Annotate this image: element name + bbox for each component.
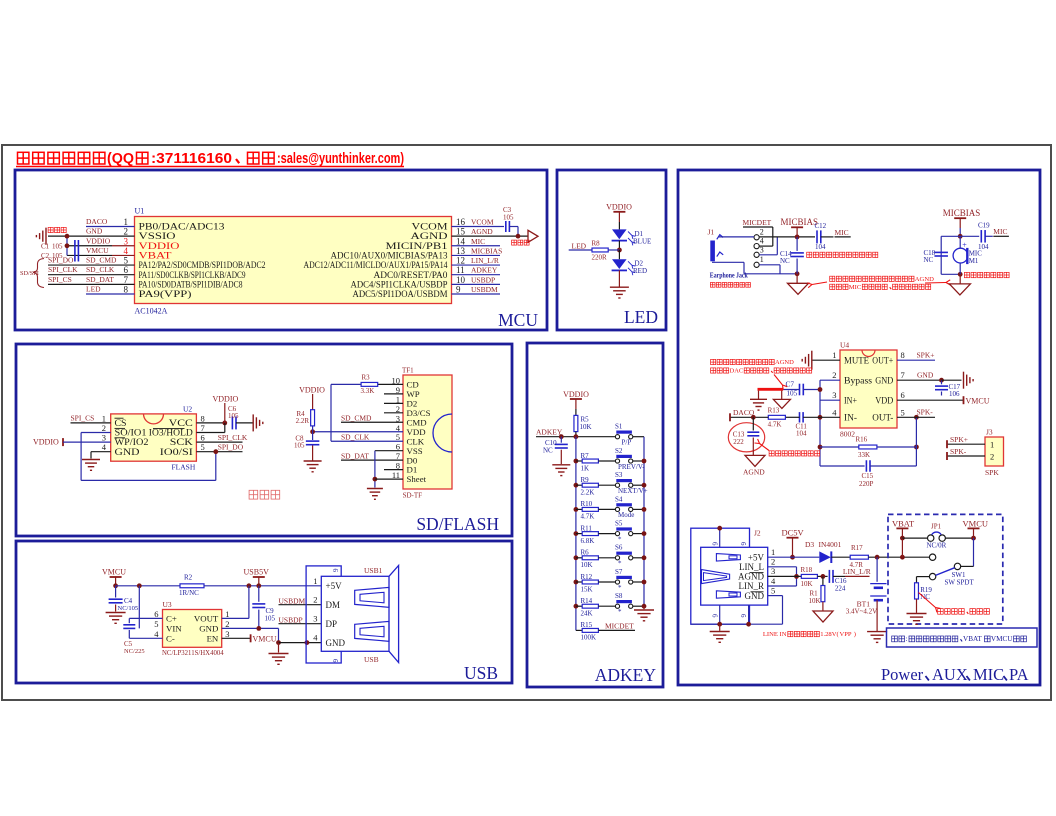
svg-text:1K: 1K: [581, 464, 590, 472]
svg-text:3: 3: [102, 433, 106, 443]
svg-text:2: 2: [225, 619, 229, 629]
svg-text:FLASH: FLASH: [172, 463, 196, 472]
svg-text:SD-TF: SD-TF: [403, 491, 423, 499]
svg-text:RED: RED: [633, 267, 647, 275]
svg-text:Bypass: Bypass: [844, 377, 872, 387]
svg-text:R12: R12: [581, 573, 593, 581]
svg-text:*: *: [618, 535, 622, 543]
svg-text:SD_DAT: SD_DAT: [341, 452, 369, 461]
svg-text:USB: USB: [464, 663, 498, 683]
svg-text:VDDIO: VDDIO: [86, 236, 111, 245]
svg-text:ADC5/SPI1DOA/USBDM: ADC5/SPI1DOA/USBDM: [353, 289, 448, 300]
svg-text:USB5V: USB5V: [244, 568, 270, 577]
svg-text:WP/IO2: WP/IO2: [115, 437, 149, 447]
svg-text:C12: C12: [815, 222, 827, 230]
svg-text:SPI_DO: SPI_DO: [48, 256, 74, 265]
svg-text:15K: 15K: [581, 585, 593, 593]
svg-text:C19: C19: [978, 221, 990, 229]
svg-text:U3: U3: [163, 600, 172, 609]
svg-text:1: 1: [832, 350, 836, 360]
svg-text:C+: C+: [166, 614, 177, 624]
svg-text:USBDP: USBDP: [471, 275, 495, 284]
svg-text:2: 2: [771, 557, 775, 567]
svg-text:VMCU: VMCU: [253, 634, 277, 643]
svg-text:1: 1: [990, 440, 994, 450]
svg-text:MICBIAS: MICBIAS: [471, 246, 502, 255]
svg-text:(QQ: (QQ: [107, 151, 134, 167]
svg-text:NC: NC: [543, 447, 553, 455]
svg-text:C10: C10: [545, 439, 557, 447]
svg-text:GND: GND: [326, 638, 346, 648]
svg-text:LED: LED: [572, 242, 587, 251]
svg-text:1: 1: [102, 413, 106, 423]
svg-text:DACO: DACO: [733, 408, 755, 417]
svg-text:6: 6: [901, 390, 905, 400]
svg-text:TF1: TF1: [402, 366, 414, 374]
svg-text:ADKEY: ADKEY: [536, 428, 563, 437]
svg-text:R13: R13: [768, 406, 780, 414]
svg-text:10K: 10K: [581, 561, 593, 569]
svg-text:SD_CMD: SD_CMD: [86, 256, 117, 265]
svg-text:2: 2: [102, 423, 106, 433]
svg-text:DM: DM: [326, 600, 341, 610]
svg-text:ADKEY: ADKEY: [471, 266, 498, 275]
svg-text:*: *: [618, 584, 622, 592]
svg-text:2.2K: 2.2K: [581, 489, 595, 497]
svg-text:10: 10: [456, 275, 466, 285]
svg-text:16: 16: [456, 217, 466, 227]
svg-text:NC/225: NC/225: [124, 648, 145, 655]
svg-text:U4: U4: [840, 340, 849, 349]
svg-text:SPI_CLK: SPI_CLK: [48, 265, 78, 274]
svg-text:VDDIO: VDDIO: [213, 395, 239, 404]
svg-text:VCC: VCC: [169, 418, 193, 428]
svg-text:6: 6: [710, 542, 718, 546]
svg-text:VMCU: VMCU: [991, 635, 1013, 643]
svg-text:Mode: Mode: [618, 511, 634, 519]
svg-text:SPI_CLK: SPI_CLK: [218, 433, 248, 442]
svg-text:USB: USB: [364, 655, 379, 664]
svg-text:105: 105: [52, 242, 63, 250]
svg-text:SW SPDT: SW SPDT: [945, 578, 975, 586]
svg-text:222: 222: [733, 438, 744, 446]
svg-text:12: 12: [456, 256, 465, 266]
svg-text:R11: R11: [581, 524, 593, 532]
svg-text:4: 4: [124, 246, 129, 256]
svg-text:DAC: DAC: [730, 368, 744, 375]
svg-text:VBAT: VBAT: [892, 518, 915, 528]
svg-text:LIN_L: LIN_L: [739, 562, 764, 572]
svg-text:MICDET: MICDET: [743, 218, 772, 227]
svg-text:6.8K: 6.8K: [581, 537, 595, 545]
svg-text:6: 6: [154, 609, 158, 619]
svg-text:6: 6: [739, 542, 747, 546]
svg-text:VCOM: VCOM: [471, 218, 494, 227]
svg-text:5: 5: [901, 407, 905, 417]
svg-text:4: 4: [760, 236, 764, 245]
svg-text:C-: C-: [166, 633, 175, 643]
svg-text:D3: D3: [805, 540, 814, 549]
svg-text:PA: PA: [1009, 665, 1029, 684]
svg-text:S7: S7: [615, 568, 623, 576]
svg-text:8: 8: [201, 413, 205, 423]
svg-text:LED: LED: [86, 284, 101, 293]
svg-text:105: 105: [294, 442, 305, 450]
svg-text:VDDIO: VDDIO: [33, 437, 59, 446]
svg-text:U1: U1: [135, 207, 145, 216]
svg-text:VMCU: VMCU: [86, 246, 109, 255]
svg-text:SO/IO1: SO/IO1: [115, 428, 147, 438]
svg-text:1: 1: [124, 217, 129, 227]
svg-text:SPI_CS: SPI_CS: [71, 413, 95, 422]
svg-text:R16: R16: [856, 435, 868, 443]
svg-text:IN-: IN-: [844, 414, 857, 424]
svg-text:6: 6: [739, 614, 747, 618]
svg-text:+5V: +5V: [748, 552, 765, 562]
svg-text:(: (: [836, 631, 838, 638]
svg-text:R9: R9: [581, 476, 590, 484]
svg-text:2.2R: 2.2R: [296, 417, 310, 425]
svg-text:M1: M1: [969, 257, 979, 265]
svg-text:SD/SPI: SD/SPI: [20, 270, 39, 277]
svg-text:106: 106: [949, 390, 960, 398]
svg-text:P/P: P/P: [622, 439, 632, 447]
svg-text:4.7K: 4.7K: [581, 513, 595, 521]
svg-text:*: *: [618, 608, 622, 616]
svg-text::: :: [905, 635, 907, 643]
svg-text:105: 105: [228, 412, 239, 420]
svg-text:MCU: MCU: [498, 310, 538, 330]
svg-text:9: 9: [456, 284, 461, 294]
svg-text:1.28V: 1.28V: [820, 631, 837, 638]
svg-text:MIC: MIC: [993, 227, 1007, 236]
svg-text:LINE IN: LINE IN: [763, 631, 787, 638]
svg-text:VDDIO: VDDIO: [606, 203, 632, 212]
svg-text:SD/FLASH: SD/FLASH: [416, 514, 499, 534]
svg-text:VOUT: VOUT: [194, 614, 219, 624]
svg-text:LIN_L/R: LIN_L/R: [843, 567, 871, 576]
svg-text:C15: C15: [862, 472, 874, 480]
svg-text:2: 2: [124, 227, 129, 237]
svg-text:VMCU: VMCU: [963, 518, 989, 528]
svg-text:224: 224: [835, 584, 846, 592]
svg-text:JP1: JP1: [931, 523, 942, 531]
svg-text:5: 5: [124, 256, 129, 266]
svg-text:C4: C4: [124, 597, 133, 605]
svg-text:*: *: [618, 560, 622, 568]
svg-text:R15: R15: [581, 621, 593, 629]
svg-text:SPK+: SPK+: [950, 435, 968, 444]
svg-text:AGND: AGND: [471, 227, 493, 236]
svg-text:6: 6: [201, 433, 205, 443]
svg-text:AC1042A: AC1042A: [135, 307, 168, 316]
svg-text:SD_DAT: SD_DAT: [86, 275, 114, 284]
svg-text:IN4001: IN4001: [819, 540, 842, 549]
svg-text:S2: S2: [615, 447, 623, 455]
svg-text:24K: 24K: [581, 610, 593, 618]
svg-text:GND: GND: [115, 447, 140, 457]
svg-text:3: 3: [771, 566, 775, 576]
svg-text:+: +: [962, 241, 967, 250]
svg-text:GND: GND: [199, 624, 218, 634]
svg-text:NC/LP3211S/HX4004: NC/LP3211S/HX4004: [162, 650, 224, 657]
svg-text:CS: CS: [115, 418, 127, 428]
svg-text:6: 6: [331, 659, 339, 663]
svg-text:5: 5: [771, 585, 775, 595]
svg-text:1: 1: [225, 609, 229, 619]
svg-text:Earphone Jack: Earphone Jack: [710, 271, 748, 279]
svg-text:ADKEY: ADKEY: [595, 665, 657, 685]
svg-text:LED: LED: [624, 307, 658, 327]
svg-text:SCK: SCK: [170, 437, 193, 447]
svg-text:MICBIAS: MICBIAS: [943, 208, 981, 218]
svg-text:VDDIO: VDDIO: [563, 390, 589, 399]
svg-text:104: 104: [815, 243, 826, 251]
svg-text:7: 7: [901, 370, 905, 380]
svg-text:NC/0R: NC/0R: [927, 542, 947, 550]
svg-text:VMCU: VMCU: [102, 568, 126, 577]
svg-text:MICBIAS: MICBIAS: [781, 217, 819, 227]
svg-text:GND: GND: [745, 591, 765, 601]
svg-text:SPK+: SPK+: [917, 351, 935, 360]
svg-text:MIC: MIC: [973, 665, 1004, 684]
svg-text:104: 104: [796, 429, 807, 437]
svg-text:USB1: USB1: [364, 566, 383, 575]
svg-text:VDD: VDD: [875, 397, 893, 407]
svg-text:2: 2: [313, 595, 317, 605]
svg-text:SD_CLK: SD_CLK: [341, 433, 370, 442]
svg-text:33K: 33K: [858, 451, 870, 459]
svg-text:OUT-: OUT-: [872, 414, 893, 424]
svg-text:3: 3: [313, 614, 317, 624]
svg-text:1: 1: [313, 576, 317, 586]
svg-text:5: 5: [201, 442, 205, 452]
svg-text:R6: R6: [581, 549, 590, 557]
svg-text:3: 3: [124, 236, 129, 246]
svg-text:Power: Power: [881, 665, 924, 684]
svg-text:IO0/SI: IO0/SI: [160, 447, 193, 457]
svg-text:10K: 10K: [801, 580, 813, 588]
svg-text:DACO: DACO: [86, 217, 108, 226]
svg-text:R3: R3: [362, 374, 371, 382]
svg-text:EN: EN: [207, 633, 219, 643]
svg-text:NC: NC: [924, 256, 934, 264]
svg-text:C5: C5: [124, 640, 133, 648]
svg-text:R8: R8: [592, 240, 601, 248]
svg-text:GND: GND: [86, 227, 103, 236]
svg-text:SPK: SPK: [985, 468, 999, 477]
svg-text:S1: S1: [615, 423, 623, 431]
svg-text:14: 14: [456, 236, 466, 246]
svg-text:2: 2: [832, 370, 836, 380]
svg-text:U2: U2: [183, 405, 192, 414]
svg-text:GND: GND: [917, 371, 934, 380]
svg-text:AGND: AGND: [738, 572, 764, 582]
svg-text:NC: NC: [920, 593, 930, 601]
svg-text:Sheet: Sheet: [407, 474, 427, 484]
svg-text:BLUE: BLUE: [633, 238, 651, 246]
svg-text:MUTE: MUTE: [844, 357, 869, 367]
svg-text:GND: GND: [875, 377, 893, 387]
svg-text:USBDM: USBDM: [471, 285, 498, 294]
svg-text:6: 6: [710, 614, 718, 618]
svg-text:SPK-: SPK-: [917, 408, 934, 417]
svg-text:2: 2: [760, 227, 764, 236]
svg-text:MIC: MIC: [835, 228, 849, 237]
svg-text:OUT+: OUT+: [872, 357, 893, 367]
svg-text:15: 15: [456, 227, 466, 237]
svg-text:105: 105: [786, 389, 797, 398]
svg-text:VPP: VPP: [839, 631, 851, 638]
svg-text:S5: S5: [615, 520, 623, 528]
svg-text:DP: DP: [326, 619, 338, 629]
svg-text:R18: R18: [801, 566, 813, 574]
svg-text:220P: 220P: [859, 480, 874, 488]
svg-text:3.4V~4.2V: 3.4V~4.2V: [846, 608, 877, 616]
svg-text:SPI_DO: SPI_DO: [218, 443, 244, 452]
svg-text:VBAT: VBAT: [963, 635, 982, 643]
svg-text:AUX: AUX: [932, 665, 968, 684]
svg-text:+5V: +5V: [326, 581, 343, 591]
svg-text:S6: S6: [615, 544, 623, 552]
svg-text:8002: 8002: [840, 429, 855, 438]
svg-text:7: 7: [201, 423, 205, 433]
svg-text:2: 2: [990, 452, 994, 462]
svg-text:8: 8: [124, 284, 129, 294]
svg-text::sales@yunthinker.com): :sales@yunthinker.com): [277, 151, 404, 167]
svg-text:VIN: VIN: [166, 624, 182, 634]
svg-text:NEXT/V+: NEXT/V+: [618, 487, 648, 495]
svg-text:MIC: MIC: [471, 237, 485, 246]
svg-text:8: 8: [901, 350, 905, 360]
svg-text:105: 105: [503, 214, 514, 222]
svg-text:NC/105: NC/105: [118, 605, 139, 612]
svg-text:PA9(VPP): PA9(VPP): [139, 289, 192, 300]
svg-text:1: 1: [771, 547, 775, 557]
svg-text:5: 5: [154, 619, 158, 629]
svg-text:DC5V: DC5V: [782, 528, 805, 538]
svg-text:IN+: IN+: [844, 397, 857, 407]
svg-text:MIC: MIC: [849, 284, 862, 291]
svg-text:SD_CMD: SD_CMD: [341, 414, 372, 423]
svg-text:10K: 10K: [580, 423, 592, 431]
svg-text:1: 1: [760, 255, 764, 264]
svg-text:IO3/HOLD: IO3/HOLD: [149, 428, 193, 438]
svg-text:SD_CLK: SD_CLK: [86, 265, 115, 274]
svg-text:): ): [854, 631, 856, 638]
svg-text:S4: S4: [615, 495, 623, 503]
svg-text:7: 7: [124, 275, 129, 285]
svg-text:R7: R7: [581, 452, 590, 460]
svg-text:R17: R17: [851, 544, 863, 552]
svg-text:MICDET: MICDET: [605, 622, 634, 631]
svg-text:105: 105: [265, 615, 276, 623]
svg-text:100K: 100K: [581, 634, 597, 642]
svg-text:SPK-: SPK-: [950, 447, 967, 456]
svg-text:R14: R14: [581, 597, 593, 605]
svg-text:AGND: AGND: [743, 468, 765, 477]
svg-text:4.7K: 4.7K: [768, 420, 782, 428]
svg-text:220R: 220R: [592, 254, 608, 262]
svg-text:1R/NC: 1R/NC: [179, 589, 199, 597]
svg-text:AGND: AGND: [915, 276, 934, 283]
svg-text:AGND: AGND: [775, 359, 794, 366]
svg-text:LIN_R: LIN_R: [739, 581, 765, 591]
svg-text:R2: R2: [184, 573, 193, 581]
svg-text:R10: R10: [581, 500, 593, 508]
svg-text:10K: 10K: [809, 597, 821, 605]
svg-text:3.3K: 3.3K: [361, 387, 375, 395]
svg-text:3: 3: [225, 629, 229, 639]
svg-text:VDDIO: VDDIO: [299, 385, 325, 394]
svg-text::371116160: :371116160: [151, 151, 232, 167]
svg-text:J2: J2: [754, 529, 761, 538]
svg-text:LIN_L/R: LIN_L/R: [471, 256, 499, 265]
svg-text:J1: J1: [708, 228, 715, 237]
svg-text:PREV/V-: PREV/V-: [618, 463, 645, 471]
svg-text:SPI_CS: SPI_CS: [48, 275, 72, 284]
svg-text:13: 13: [456, 246, 466, 256]
svg-text:S3: S3: [615, 471, 623, 479]
svg-text:3: 3: [832, 390, 836, 400]
svg-text:S8: S8: [615, 592, 623, 600]
svg-text:VMCU: VMCU: [966, 397, 990, 406]
svg-text:NC: NC: [780, 257, 790, 265]
svg-text:J3: J3: [986, 427, 993, 436]
svg-text:6: 6: [124, 265, 129, 275]
svg-text:6: 6: [331, 569, 339, 573]
svg-text:11: 11: [456, 265, 465, 275]
